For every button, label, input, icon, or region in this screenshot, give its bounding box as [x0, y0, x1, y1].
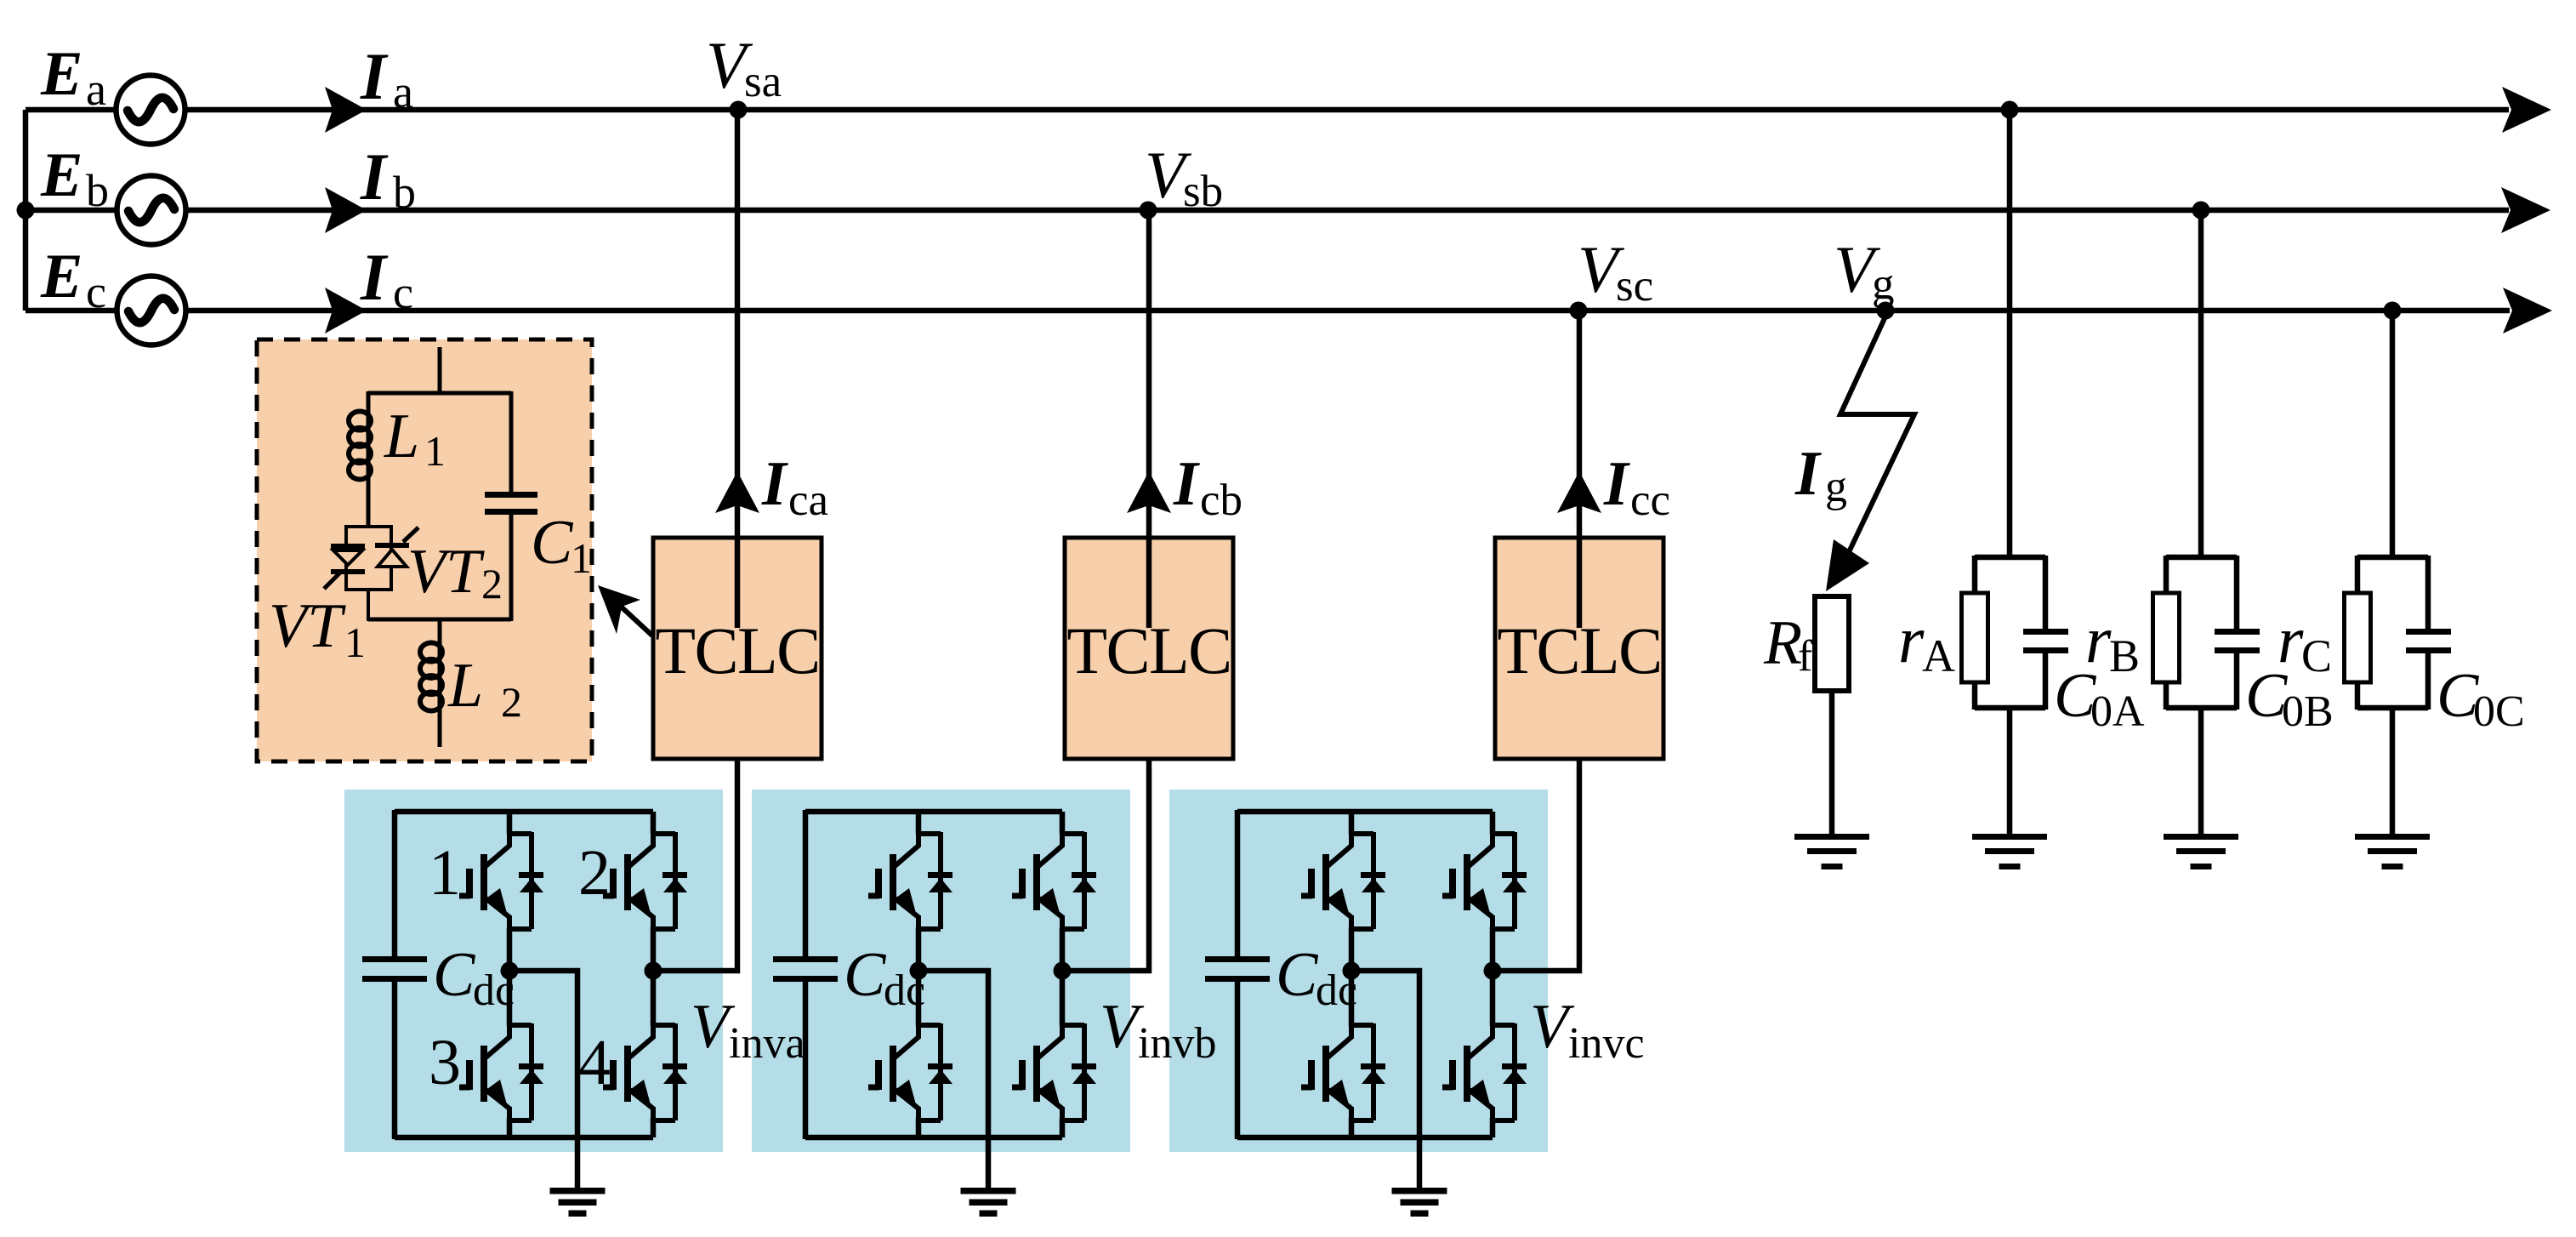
capacitor C0C — [2406, 629, 2451, 653]
svg-text:C: C — [844, 940, 887, 1010]
label Vinvb — [1100, 992, 1216, 1068]
svg-text:invb: invb — [1138, 1019, 1216, 1068]
svg-text:1: 1 — [344, 618, 366, 666]
wire L1 to thyristors — [367, 477, 371, 528]
arrow current Icb — [1127, 471, 1171, 513]
resistor Rf — [1815, 596, 1849, 691]
capacitor C0B — [2215, 629, 2260, 653]
svg-text:A: A — [1922, 630, 1955, 681]
svg-text:I: I — [360, 140, 389, 214]
svg-text:I: I — [360, 240, 389, 314]
wire source bus vertical — [23, 110, 29, 311]
transistor IGBT top leg x1249 invb — [1012, 829, 1096, 932]
transistor IGBT top leg x1589 invc — [1301, 829, 1385, 932]
inverter inva background box — [344, 790, 723, 1152]
svg-text:b: b — [86, 165, 109, 216]
label VT2 — [407, 537, 503, 607]
svg-text:C: C — [2301, 630, 2332, 681]
capacitor Cdc invb — [773, 956, 838, 982]
wire inverter inva leg x599 — [507, 812, 513, 1137]
svg-text:inva: inva — [729, 1019, 805, 1068]
svg-text:TCLC: TCLC — [1066, 613, 1231, 687]
svg-text:L: L — [447, 651, 483, 721]
label C0B — [2245, 661, 2334, 736]
resistor rA — [1962, 593, 1988, 682]
svg-text:c: c — [86, 266, 106, 317]
svg-text:a: a — [393, 66, 413, 117]
wire invb midpoint to ground — [918, 971, 988, 1188]
svg-text:f: f — [1798, 632, 1813, 681]
label switch 2 — [578, 837, 611, 909]
svg-text:sa: sa — [744, 57, 782, 106]
label switch 1 — [429, 837, 461, 909]
wire rB bottom tee — [2166, 652, 2237, 835]
svg-text:0C: 0C — [2473, 687, 2525, 736]
label Vinvc — [1530, 992, 1645, 1068]
label L1 — [384, 402, 446, 475]
svg-text:ca: ca — [788, 476, 828, 525]
label Vsa — [706, 28, 782, 106]
source Eb — [117, 176, 186, 245]
svg-text:R: R — [1763, 608, 1802, 678]
transistor IGBT bottom leg x1755 invc — [1442, 1020, 1527, 1124]
svg-text:E: E — [40, 242, 82, 311]
svg-text:I: I — [1173, 449, 1200, 519]
ground branch C — [2355, 834, 2430, 869]
label Cdc invb — [844, 940, 925, 1015]
thyristor VT2 symbol — [375, 527, 418, 567]
svg-text:C: C — [531, 508, 574, 578]
label Ea — [40, 39, 106, 115]
label Icc — [1603, 449, 1670, 525]
svg-text:4: 4 — [578, 1027, 611, 1098]
fault lightning bolt — [1826, 316, 1914, 591]
label Vsc — [1578, 232, 1653, 311]
ground inverter inva — [550, 1188, 606, 1217]
node Vg junction — [1877, 302, 1895, 320]
resistor rC — [2345, 593, 2371, 682]
svg-text:C: C — [1276, 940, 1319, 1010]
wire TCLC c inner stub — [1577, 538, 1583, 628]
label Vg — [1834, 232, 1895, 309]
svg-text:c: c — [393, 267, 413, 318]
svg-text:invc: invc — [1568, 1019, 1645, 1068]
svg-text:0A: 0A — [2090, 687, 2145, 736]
svg-text:1: 1 — [571, 534, 592, 582]
label VT1 — [269, 591, 366, 666]
thyristor VT1 symbol — [324, 544, 365, 589]
svg-text:0B: 0B — [2282, 687, 2334, 736]
wire TCLC b inner stub — [1146, 538, 1152, 628]
junction invc left-leg midpoint — [1343, 962, 1361, 980]
svg-text:cb: cb — [1200, 476, 1243, 525]
svg-text:VT: VT — [407, 537, 485, 607]
svg-text:2: 2 — [501, 678, 522, 726]
label TCLC b — [1066, 613, 1231, 687]
wire Vsb vertical — [1146, 210, 1152, 539]
label TCLC c — [1497, 613, 1661, 687]
node phase C tap — [2384, 302, 2402, 320]
label Cdc inva — [433, 940, 515, 1015]
label TCLC a — [655, 613, 819, 687]
wire detail bottom stub — [438, 709, 442, 747]
arrow current Ica — [715, 471, 759, 513]
wire TCLC a inner stub — [735, 538, 741, 628]
junction invc right-leg midpoint — [1484, 962, 1502, 980]
node phase B tap — [2192, 202, 2210, 219]
node Vsa junction — [730, 101, 748, 119]
arrow TCLC zoom pointer — [598, 585, 652, 636]
transistor IGBT bottom leg x599 inva — [459, 1020, 543, 1124]
transistor IGBT bottom leg x1589 invc — [1301, 1020, 1385, 1124]
source Ec — [117, 276, 186, 345]
wire phase C line — [26, 308, 2510, 314]
wire inva output to TCLC — [653, 760, 737, 971]
svg-text:a: a — [86, 64, 106, 115]
label C1 — [531, 508, 592, 582]
svg-text:E: E — [40, 39, 82, 109]
inductor L1 — [349, 411, 371, 481]
label switch 4 — [578, 1027, 611, 1098]
ground fault Rf — [1794, 834, 1869, 869]
wire rC top tee — [2357, 556, 2428, 631]
svg-text:TCLC: TCLC — [1497, 613, 1661, 687]
svg-text:I: I — [360, 39, 389, 113]
label rC — [2277, 602, 2332, 681]
svg-text:I: I — [1603, 449, 1630, 519]
wire rA branch vertical — [2007, 110, 2013, 559]
wire inverter invc rails — [1237, 810, 1493, 1139]
arrow current Ia — [325, 87, 367, 133]
svg-text:B: B — [2109, 630, 2140, 681]
inverter invb background box — [752, 790, 1130, 1152]
transistor IGBT bottom leg x768 inva — [603, 1020, 687, 1124]
wire invb output to TCLC — [1062, 760, 1149, 971]
svg-text:I: I — [1794, 439, 1822, 509]
inverter invc background box — [1169, 790, 1548, 1152]
ground inverter invb — [961, 1188, 1016, 1217]
node phase A tap — [2001, 101, 2019, 119]
wire invc output to TCLC — [1493, 760, 1579, 971]
transistor IGBT top leg x768 inva — [603, 829, 687, 932]
wire detail bottom rail — [368, 618, 511, 646]
svg-text:1: 1 — [429, 837, 461, 909]
label Vsb — [1145, 138, 1223, 216]
label Ig — [1794, 439, 1847, 511]
svg-text:E: E — [40, 140, 82, 210]
TCLC box phase b — [1065, 538, 1233, 759]
transistor IGBT top leg x1755 invc — [1442, 829, 1527, 932]
svg-text:VT: VT — [269, 591, 346, 661]
transistor IGBT bottom leg x1080 invb — [868, 1020, 952, 1124]
svg-text:2: 2 — [481, 560, 503, 607]
svg-text:g: g — [1825, 463, 1847, 511]
svg-text:b: b — [393, 167, 416, 218]
thyristor pair frame — [346, 527, 391, 621]
svg-text:TCLC: TCLC — [655, 613, 819, 687]
junction source bus node — [17, 202, 35, 219]
wire rA top tee — [1975, 556, 2045, 631]
capacitor C1 — [485, 492, 537, 621]
arrow phase C line end — [2503, 288, 2552, 333]
wire rB top tee — [2166, 556, 2237, 631]
wire inva midpoint to ground — [509, 971, 577, 1188]
wire inverter inva leg x768 — [651, 812, 657, 1137]
label Ec — [40, 242, 106, 317]
junction inva right-leg midpoint — [645, 962, 662, 980]
wire phase B line — [26, 208, 2509, 214]
arrow current Ib — [325, 187, 367, 233]
svg-text:1: 1 — [424, 427, 446, 475]
svg-text:r: r — [2085, 602, 2112, 676]
wire phase A line — [26, 107, 2509, 113]
wire rC bottom tee — [2357, 652, 2428, 835]
TCLC box phase c — [1495, 538, 1663, 759]
svg-text:3: 3 — [429, 1027, 461, 1098]
ground inverter invc — [1392, 1188, 1447, 1217]
label Ica — [761, 449, 828, 525]
label rA — [1898, 602, 1955, 681]
wire invc midpoint to ground — [1351, 971, 1419, 1188]
label C0A — [2054, 661, 2145, 736]
wire Vsc vertical — [1577, 311, 1583, 539]
label Eb — [40, 140, 109, 216]
label Rf — [1763, 608, 1813, 681]
capacitor C0A — [2023, 629, 2068, 653]
node Vsb junction — [1140, 202, 1157, 219]
junction invb right-leg midpoint — [1054, 962, 1072, 980]
source Ea — [117, 76, 185, 145]
wire detail top stub — [438, 347, 442, 395]
wire rC branch vertical — [2390, 311, 2396, 559]
label Icb — [1173, 449, 1243, 525]
junction invb left-leg midpoint — [910, 962, 928, 980]
label Ia — [360, 39, 413, 117]
arrow phase B line end — [2501, 187, 2550, 233]
wire rA bottom tee — [1975, 652, 2045, 835]
label Vinva — [691, 992, 805, 1068]
svg-text:r: r — [1898, 602, 1925, 676]
wire Vsa vertical — [735, 110, 741, 539]
ground branch B — [2164, 834, 2238, 869]
transistor IGBT top leg x1080 invb — [868, 829, 952, 932]
arrow current Ic — [325, 288, 367, 333]
svg-text:C: C — [433, 940, 476, 1010]
arrow current Icc — [1557, 471, 1601, 513]
label switch 3 — [429, 1027, 461, 1098]
wire inverter invb rails — [805, 810, 1062, 1139]
capacitor Cdc invc — [1205, 956, 1270, 982]
wire inverter inva rails — [395, 810, 653, 1139]
svg-text:cc: cc — [1630, 476, 1670, 525]
label rB — [2085, 602, 2140, 681]
svg-text:I: I — [761, 449, 788, 519]
wire Rf to ground — [1829, 689, 1835, 835]
wire rB branch vertical — [2198, 210, 2204, 559]
wire inverter invc leg x1755 — [1490, 812, 1496, 1137]
TCLC box phase a — [653, 538, 822, 759]
svg-text:sb: sb — [1183, 167, 1223, 216]
svg-text:g: g — [1872, 259, 1895, 309]
label Ib — [360, 140, 416, 218]
wire detail top rail — [368, 391, 511, 493]
capacitor Cdc inva — [362, 956, 427, 982]
wire inverter invb leg x1249 — [1060, 812, 1066, 1137]
svg-text:L: L — [384, 402, 419, 471]
arrow phase A line end — [2502, 87, 2551, 133]
label C0C — [2437, 661, 2525, 736]
resistor rB — [2153, 593, 2180, 682]
svg-text:2: 2 — [578, 837, 611, 909]
svg-text:sc: sc — [1616, 261, 1653, 311]
svg-text:r: r — [2277, 602, 2304, 676]
ground branch A — [1972, 834, 2047, 869]
inductor L2 — [420, 642, 442, 712]
transistor IGBT top leg x599 inva — [459, 829, 543, 932]
node Vsc junction — [1570, 302, 1588, 320]
TCLC detail dashed box — [257, 339, 592, 761]
junction inva left-leg midpoint — [501, 962, 519, 980]
transistor IGBT bottom leg x1249 invb — [1012, 1020, 1096, 1124]
label Ic — [360, 240, 413, 318]
wire inverter invc leg x1589 — [1349, 812, 1355, 1137]
label L2 — [447, 651, 522, 726]
label Cdc invc — [1276, 940, 1357, 1015]
wire inverter invb leg x1080 — [916, 812, 922, 1137]
